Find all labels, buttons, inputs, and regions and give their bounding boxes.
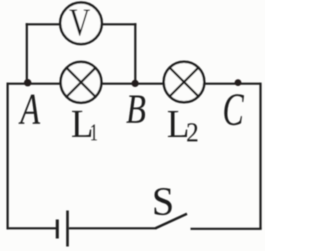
- label L1: [72, 111, 91, 137]
- wire right vertical of main loop: [259, 83, 261, 230]
- label node A: [19, 95, 41, 124]
- node C junction dot: [235, 79, 242, 86]
- node B junction dot: [132, 80, 139, 87]
- voltmeter U1: [60, 3, 102, 45]
- switch S blade: [156, 214, 188, 229]
- wire voltmeter branch top-right horizontal: [102, 23, 136, 25]
- wire left vertical of main loop: [6, 83, 8, 230]
- lamp L1: [61, 62, 102, 103]
- wire between L1 and L2 (through node B): [102, 83, 165, 85]
- label switch S: [155, 188, 172, 215]
- label node C: [224, 94, 244, 125]
- wire battery to switch: [69, 227, 157, 229]
- battery BT1: long plate (positive): [66, 211, 69, 247]
- wire switch to right corner: [191, 228, 262, 230]
- wire bottom-left (corner to battery): [7, 227, 57, 229]
- lamp L2: [164, 62, 205, 103]
- wire voltmeter branch top-left horizontal: [26, 23, 60, 25]
- wire top-left horizontal (A to L1): [7, 83, 61, 85]
- wire voltmeter branch: down to B: [134, 23, 136, 83]
- battery BT1: short plate (negative): [56, 220, 59, 239]
- node A junction dot: [24, 79, 31, 86]
- wire L2 to right corner (through node C): [204, 83, 261, 85]
- label L2: [168, 111, 187, 137]
- label node B: [126, 96, 145, 123]
- wire voltmeter branch: A up: [26, 23, 28, 83]
